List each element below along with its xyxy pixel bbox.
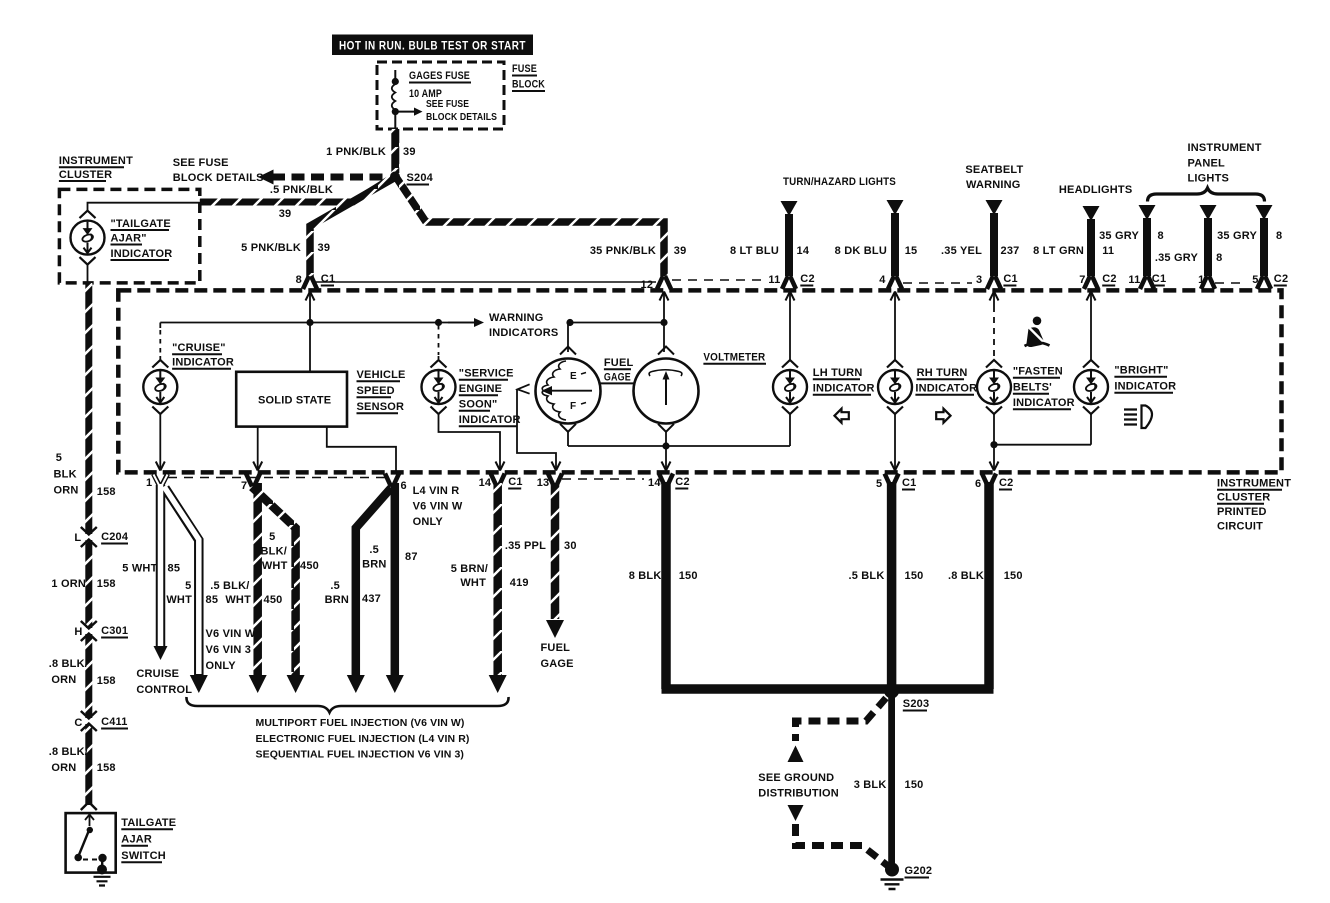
svg-text:SEE FUSE: SEE FUSE — [173, 157, 229, 169]
svg-text:3 BLK: 3 BLK — [854, 779, 887, 791]
svg-text:MULTIPORT FUEL INJECTION (V6 V: MULTIPORT FUEL INJECTION (V6 VIN W) — [256, 717, 465, 729]
svg-text:39: 39 — [279, 208, 292, 220]
svg-text:SOLID STATE: SOLID STATE — [258, 395, 331, 407]
svg-text:WHT: WHT — [225, 594, 251, 606]
svg-text:39: 39 — [318, 242, 331, 254]
svg-text:BRN: BRN — [362, 559, 386, 571]
svg-text:TURN/HAZARD LIGHTS: TURN/HAZARD LIGHTS — [783, 176, 896, 188]
svg-text:CRUISE: CRUISE — [136, 668, 179, 680]
svg-text:150: 150 — [905, 570, 924, 582]
svg-text:V6 VIN W: V6 VIN W — [413, 501, 463, 513]
svg-text:DISTRIBUTION: DISTRIBUTION — [758, 788, 839, 800]
svg-text:TAILGATE: TAILGATE — [121, 817, 176, 829]
svg-text:5: 5 — [269, 531, 275, 543]
svg-text:1 PNK/BLK: 1 PNK/BLK — [326, 146, 386, 158]
svg-text:13: 13 — [537, 477, 550, 489]
svg-text:"TAILGATE: "TAILGATE — [111, 218, 171, 230]
svg-text:L: L — [74, 532, 81, 544]
svg-text:"FASTEN: "FASTEN — [1013, 366, 1063, 378]
svg-text:C204: C204 — [101, 531, 129, 543]
svg-text:SEE GROUND: SEE GROUND — [758, 772, 834, 784]
svg-text:450: 450 — [300, 560, 319, 572]
svg-text:BLOCK DETAILS: BLOCK DETAILS — [173, 172, 264, 184]
svg-text:WHT: WHT — [262, 560, 288, 572]
svg-text:H: H — [74, 626, 82, 638]
svg-text:11: 11 — [1128, 274, 1140, 286]
svg-text:39: 39 — [403, 146, 416, 158]
svg-text:14: 14 — [648, 477, 661, 489]
svg-text:AJAR": AJAR" — [111, 233, 147, 245]
svg-text:1: 1 — [1198, 274, 1204, 286]
svg-text:GAGE: GAGE — [604, 372, 631, 384]
svg-text:WHT: WHT — [166, 594, 192, 606]
svg-text:SOON": SOON" — [459, 399, 498, 411]
svg-text:14: 14 — [479, 477, 492, 489]
svg-text:.5: .5 — [330, 580, 340, 592]
svg-text:INDICATOR: INDICATOR — [915, 383, 977, 395]
svg-text:158: 158 — [97, 486, 116, 498]
svg-text:GAGES FUSE: GAGES FUSE — [409, 70, 470, 82]
svg-text:8 DK BLU: 8 DK BLU — [835, 245, 887, 257]
svg-text:6: 6 — [975, 478, 981, 490]
svg-text:INSTRUMENT: INSTRUMENT — [1217, 478, 1291, 490]
svg-text:15: 15 — [905, 245, 918, 257]
svg-text:C411: C411 — [101, 716, 128, 728]
svg-text:C1: C1 — [1152, 273, 1166, 285]
svg-text:4: 4 — [879, 274, 886, 286]
svg-text:30: 30 — [564, 540, 577, 552]
svg-text:PRINTED: PRINTED — [1217, 506, 1267, 518]
svg-text:1: 1 — [146, 477, 152, 489]
svg-text:ORN: ORN — [51, 762, 76, 774]
svg-text:S203: S203 — [903, 698, 930, 710]
svg-text:6: 6 — [401, 480, 407, 492]
svg-text:V6 VIN 3: V6 VIN 3 — [206, 644, 252, 656]
svg-text:87: 87 — [405, 551, 418, 563]
svg-text:SEE FUSE: SEE FUSE — [426, 98, 469, 110]
svg-text:CLUSTER: CLUSTER — [59, 169, 112, 181]
svg-text:.35 YEL: .35 YEL — [941, 245, 982, 257]
svg-text:INDICATOR: INDICATOR — [1114, 381, 1176, 393]
svg-text:35 GRY: 35 GRY — [1099, 230, 1139, 242]
svg-text:158: 158 — [97, 578, 116, 590]
svg-text:7: 7 — [1079, 274, 1085, 286]
svg-text:ONLY: ONLY — [413, 516, 444, 528]
svg-text:GAGE: GAGE — [541, 658, 574, 670]
svg-text:SENSOR: SENSOR — [357, 401, 405, 413]
svg-text:VOLTMETER: VOLTMETER — [703, 352, 765, 364]
svg-text:85: 85 — [168, 563, 181, 575]
svg-text:SEQUENTIAL FUEL INJECTION V6 V: SEQUENTIAL FUEL INJECTION V6 VIN 3) — [256, 749, 464, 761]
svg-text:FUSE: FUSE — [512, 63, 537, 75]
svg-text:11: 11 — [1102, 245, 1114, 257]
svg-text:INDICATORS: INDICATORS — [489, 327, 558, 339]
svg-text:C2: C2 — [1102, 273, 1116, 285]
svg-text:AJAR: AJAR — [121, 834, 152, 846]
svg-text:8 BLK: 8 BLK — [629, 570, 662, 582]
svg-text:"SERVICE: "SERVICE — [459, 368, 514, 380]
svg-text:11: 11 — [768, 274, 780, 286]
svg-text:.8 BLK: .8 BLK — [948, 570, 984, 582]
svg-text:S204: S204 — [407, 172, 434, 184]
svg-text:8: 8 — [296, 274, 302, 286]
svg-text:BRN: BRN — [325, 594, 349, 606]
svg-text:BELTS': BELTS' — [1013, 382, 1052, 394]
svg-text:158: 158 — [97, 762, 116, 774]
svg-text:39: 39 — [674, 245, 687, 257]
svg-text:.35 PPL: .35 PPL — [505, 540, 546, 552]
svg-text:BLOCK DETAILS: BLOCK DETAILS — [426, 111, 497, 123]
svg-text:ONLY: ONLY — [206, 660, 237, 672]
svg-text:.8 BLK/: .8 BLK/ — [49, 658, 88, 670]
svg-text:8: 8 — [1276, 230, 1282, 242]
svg-text:CLUSTER: CLUSTER — [1217, 492, 1270, 504]
svg-text:C301: C301 — [101, 625, 128, 637]
svg-text:CONTROL: CONTROL — [136, 684, 192, 696]
svg-text:G202: G202 — [905, 865, 933, 877]
svg-text:INSTRUMENT: INSTRUMENT — [1188, 142, 1262, 154]
svg-text:E: E — [570, 371, 577, 382]
svg-text:.5 BLK/: .5 BLK/ — [210, 580, 249, 592]
svg-text:INDICATOR: INDICATOR — [1013, 397, 1075, 409]
svg-text:C1: C1 — [902, 477, 916, 489]
svg-text:F: F — [570, 401, 576, 412]
svg-text:V6 VIN W: V6 VIN W — [206, 628, 256, 640]
svg-text:5: 5 — [1252, 274, 1258, 286]
svg-text:C2: C2 — [675, 476, 689, 488]
svg-text:VEHICLE: VEHICLE — [357, 369, 406, 381]
svg-text:150: 150 — [679, 570, 698, 582]
svg-text:WARNING: WARNING — [489, 312, 544, 324]
svg-text:FUEL: FUEL — [604, 357, 634, 369]
svg-text:BLK/: BLK/ — [261, 546, 287, 558]
svg-text:C1: C1 — [508, 476, 522, 488]
svg-text:INSTRUMENT: INSTRUMENT — [59, 155, 133, 167]
svg-text:8 LT BLU: 8 LT BLU — [730, 245, 779, 257]
svg-text:SWITCH: SWITCH — [121, 850, 166, 862]
svg-text:"BRIGHT": "BRIGHT" — [1114, 365, 1168, 377]
svg-text:8: 8 — [1158, 230, 1164, 242]
svg-text:5: 5 — [185, 580, 191, 592]
svg-text:150: 150 — [1004, 570, 1023, 582]
svg-text:C1: C1 — [321, 273, 335, 285]
svg-text:419: 419 — [510, 577, 529, 589]
svg-text:L4 VIN R: L4 VIN R — [413, 485, 460, 497]
svg-text:LH TURN: LH TURN — [813, 367, 863, 379]
svg-text:C2: C2 — [800, 273, 814, 285]
svg-text:LIGHTS: LIGHTS — [1188, 173, 1230, 185]
svg-text:5 WHT: 5 WHT — [122, 563, 157, 575]
svg-text:1 ORN: 1 ORN — [51, 578, 86, 590]
svg-text:158: 158 — [97, 675, 116, 687]
svg-text:INDICATOR: INDICATOR — [172, 357, 234, 369]
svg-text:.35 GRY: .35 GRY — [1155, 252, 1199, 264]
svg-text:5 PNK/BLK: 5 PNK/BLK — [241, 242, 301, 254]
svg-text:35 GRY: 35 GRY — [1217, 230, 1257, 242]
svg-text:"CRUISE": "CRUISE" — [172, 342, 226, 354]
svg-text:SPEED: SPEED — [357, 385, 395, 397]
svg-text:450: 450 — [264, 594, 283, 606]
svg-text:237: 237 — [1001, 245, 1020, 257]
svg-text:ORN: ORN — [51, 674, 76, 686]
svg-text:ENGINE: ENGINE — [459, 383, 502, 395]
svg-text:437: 437 — [362, 593, 381, 605]
svg-text:35 PNK/BLK: 35 PNK/BLK — [590, 245, 656, 257]
svg-text:BLK: BLK — [54, 469, 77, 481]
svg-text:8: 8 — [1216, 252, 1222, 264]
svg-text:3: 3 — [976, 274, 982, 286]
svg-text:ELECTRONIC FUEL INJECTION (L4: ELECTRONIC FUEL INJECTION (L4 VIN R) — [256, 733, 470, 745]
svg-text:CIRCUIT: CIRCUIT — [1217, 521, 1263, 533]
svg-text:.8 BLK/: .8 BLK/ — [49, 746, 88, 758]
svg-text:5 BRN/: 5 BRN/ — [451, 563, 488, 575]
svg-text:.5 BLK: .5 BLK — [848, 570, 884, 582]
svg-text:5: 5 — [876, 478, 882, 490]
svg-text:WARNING: WARNING — [966, 179, 1021, 191]
svg-text:150: 150 — [905, 779, 924, 791]
svg-text:C1: C1 — [1003, 273, 1017, 285]
svg-text:C: C — [74, 717, 82, 729]
svg-text:SEATBELT: SEATBELT — [965, 164, 1023, 176]
svg-text:INDICATOR: INDICATOR — [459, 414, 521, 426]
svg-text:C2: C2 — [999, 477, 1013, 489]
svg-text:FUEL: FUEL — [541, 642, 571, 654]
svg-text:BLOCK: BLOCK — [512, 79, 545, 91]
svg-text:ORN: ORN — [54, 485, 79, 497]
svg-text:INDICATOR: INDICATOR — [813, 383, 875, 395]
svg-text:WHT: WHT — [460, 577, 486, 589]
svg-text:PANEL: PANEL — [1188, 158, 1226, 170]
svg-text:HEADLIGHTS: HEADLIGHTS — [1059, 184, 1133, 196]
svg-text:C2: C2 — [1274, 273, 1288, 285]
svg-text:5: 5 — [56, 452, 62, 464]
svg-text:.5 PNK/BLK: .5 PNK/BLK — [270, 184, 333, 196]
svg-text:.5: .5 — [369, 544, 379, 556]
svg-text:85: 85 — [206, 594, 219, 606]
svg-text:INDICATOR: INDICATOR — [111, 248, 173, 260]
svg-text:14: 14 — [797, 245, 810, 257]
svg-text:7: 7 — [241, 480, 247, 492]
svg-text:HOT IN RUN. BULB TEST OR START: HOT IN RUN. BULB TEST OR START — [339, 39, 526, 53]
svg-text:8 LT GRN: 8 LT GRN — [1033, 245, 1084, 257]
svg-text:RH TURN: RH TURN — [917, 367, 968, 379]
